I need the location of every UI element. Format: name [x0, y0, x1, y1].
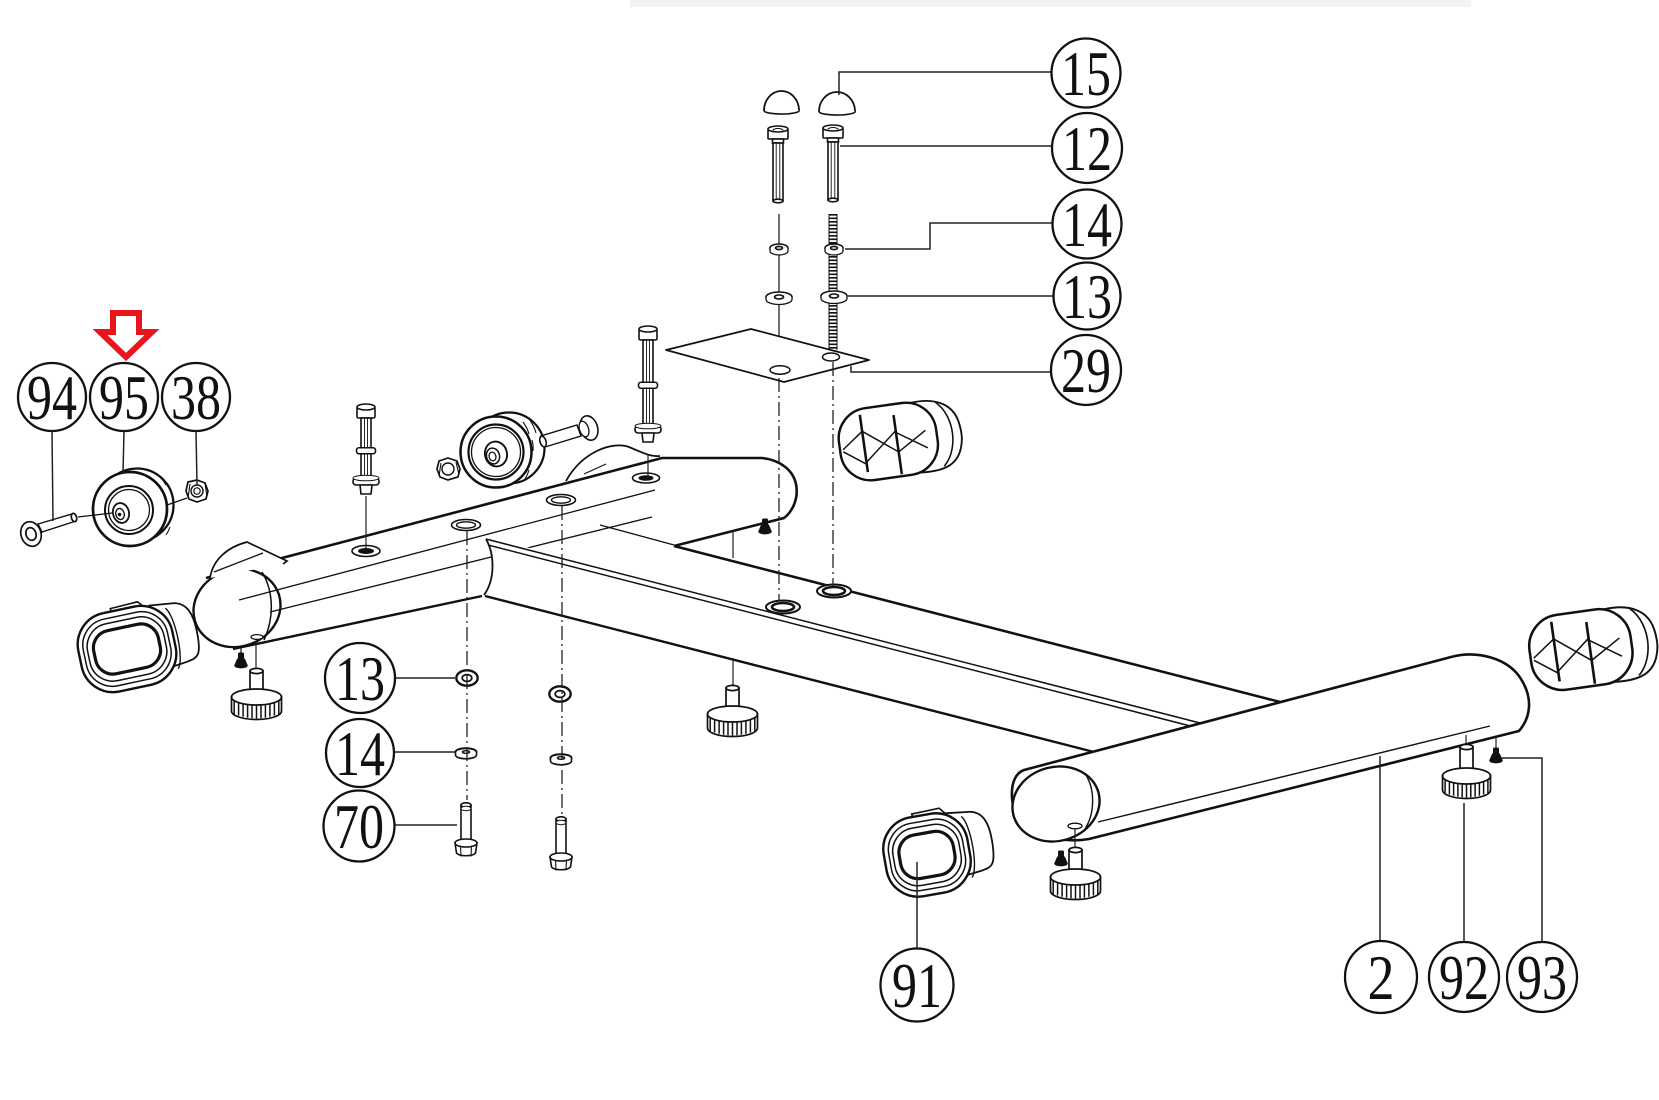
balloon 14 lower — [326, 718, 394, 789]
top gray bar artifact — [630, 0, 1471, 7]
balloon 2 — [1345, 941, 1417, 1013]
balloon 29 — [1051, 335, 1121, 406]
svg-text:91: 91 — [892, 950, 942, 1021]
bolt 12 left — [768, 126, 788, 203]
leader line to balloon 93 — [1501, 758, 1542, 941]
balloon 93 — [1507, 942, 1577, 1013]
dome nut cap 15 left — [764, 91, 799, 111]
oval hole in rail top face (left) — [766, 601, 800, 614]
balloon 14 — [1053, 189, 1122, 260]
svg-text:95: 95 — [99, 362, 149, 433]
leader line to balloon 70 — [394, 824, 457, 826]
leader line to balloon 29 — [851, 366, 1051, 372]
rail left rounded end — [484, 539, 493, 595]
washer 13 left (above plate) — [766, 292, 792, 305]
threaded rod of right bolt 12 — [829, 214, 838, 352]
red arrow pointing at balloon 95 — [100, 313, 152, 357]
leader line to balloon 12 — [840, 145, 1052, 147]
washer 14 second chain — [551, 754, 572, 765]
front stabilizer tube of T-frame (body fill) — [194, 458, 797, 649]
threaded stud bolt over tube hole 1 — [353, 404, 379, 494]
hex nut 38 — [186, 480, 208, 502]
hole 4 on tube top face with bolt tip — [633, 473, 660, 483]
axle line — [78, 498, 187, 517]
bolt 70 lower-left chain — [455, 803, 477, 857]
adjustable foot center — [708, 685, 758, 736]
svg-text:38: 38 — [171, 362, 221, 433]
dome nut cap 15 right — [819, 92, 855, 112]
end cap back-view far right (rear tube) — [1525, 602, 1659, 694]
balloon 95 — [90, 362, 158, 433]
axle bolt for center wheel — [539, 413, 601, 447]
washer 14 lower-left chain — [456, 748, 477, 759]
threaded stud bolt over tube hole 4 — [635, 326, 661, 442]
svg-text:94: 94 — [27, 362, 77, 433]
leader line to balloon 91 — [916, 862, 918, 948]
centerline dash-dot second chain — [561, 506, 563, 816]
leader line to balloon 13 — [848, 295, 1053, 297]
end cap 91 left (front tube) — [71, 591, 206, 698]
front tube outline (visible edges) — [206, 458, 797, 578]
hole 2 on tube top face — [452, 520, 481, 531]
mounting plate 29 — [666, 329, 869, 382]
leader line to balloon 94 — [52, 431, 53, 521]
balloon 94 — [18, 362, 86, 433]
adjustable foot front-left — [232, 668, 282, 719]
balloon 12 — [1052, 113, 1122, 184]
screw 93 under rear tube right — [1490, 748, 1502, 763]
screw under rear tube left — [1055, 851, 1067, 866]
washer 13 second chain — [549, 686, 571, 702]
centerline dash-dot through bolt 12 left — [778, 214, 780, 367]
leader line to balloon 95 — [123, 431, 124, 473]
center pulley wheel — [461, 413, 545, 488]
hole 1 on tube top face with bolt tip — [352, 546, 380, 557]
balloon 15 — [1052, 38, 1121, 109]
svg-text:12: 12 — [1062, 113, 1112, 184]
hex nut center — [437, 458, 460, 480]
bolt 94 — [18, 513, 78, 549]
svg-text:14: 14 — [335, 718, 385, 789]
front tube side face lower edge — [270, 517, 652, 612]
washer 14 left (above plate) — [770, 244, 788, 255]
front tube bottom edge — [233, 596, 482, 649]
small hex screw under front tube left — [235, 653, 247, 668]
gusset hump on tube near cylinder — [566, 445, 660, 481]
balloon 92 — [1429, 942, 1499, 1013]
end cap back-view upper (for T cylinder) — [835, 395, 966, 484]
svg-text:70: 70 — [334, 791, 384, 862]
rail near top edge double line — [486, 539, 1200, 728]
adjustable foot rear-left — [1051, 847, 1101, 899]
leader line to balloon 15 — [839, 72, 1051, 95]
svg-text:14: 14 — [1062, 189, 1112, 260]
washer 13 lower-left chain — [456, 670, 478, 686]
leader line to balloon 2 — [1379, 756, 1381, 940]
leader line to balloon 92 — [1463, 803, 1465, 941]
balloon 13 — [1054, 261, 1121, 332]
screw under T cylinder — [759, 519, 771, 534]
rail far top edge — [674, 546, 1284, 703]
svg-text:13: 13 — [335, 643, 385, 714]
front tube left oval end — [183, 558, 290, 658]
centerline dash-dot through bolt 12 right — [832, 362, 834, 586]
rear tube inner bottom line — [1098, 726, 1490, 822]
rim hatch — [523, 419, 536, 479]
balloon 13 lower — [325, 643, 395, 714]
svg-text:13: 13 — [1062, 261, 1112, 332]
balloon 91 — [881, 949, 954, 1022]
svg-text:92: 92 — [1439, 942, 1489, 1013]
centerline dash-dot through bolt 12 left — [778, 378, 780, 600]
leader line to balloon 38 — [196, 431, 197, 485]
washer 14 right (above plate) — [825, 244, 843, 255]
rear tube left oval end — [1004, 757, 1108, 851]
leader line to balloon 14 lower — [394, 751, 455, 753]
washer 13 right (above plate) — [821, 291, 847, 304]
balloon 70 — [324, 791, 395, 863]
end cap 91 (rear tube left, with leader) — [878, 800, 1000, 902]
bolt 70 second chain — [550, 817, 572, 871]
rear tube foot hole — [1068, 823, 1082, 829]
hole 3 on tube top face — [547, 495, 576, 506]
oval hole in rail top face (right) — [817, 585, 851, 598]
balloon 38 — [162, 362, 230, 433]
gusset flap at tube left end — [210, 542, 287, 578]
small hole under tube left end — [251, 635, 263, 640]
svg-text:2: 2 — [1368, 942, 1395, 1013]
pulley wheel 95 — [93, 469, 174, 547]
leader line to balloon 14 — [845, 223, 1052, 249]
cylinder/tube junction seam — [600, 525, 674, 545]
adjustable foot right-92 — [1443, 744, 1491, 798]
svg-text:29: 29 — [1061, 335, 1111, 406]
bolt 12 right — [823, 125, 843, 202]
front tube top face near edge — [239, 490, 655, 600]
rear stabilizer tube part 2 (body) — [1012, 655, 1529, 841]
centerline dash-dot left chain — [466, 531, 468, 800]
rail bottom edge — [485, 596, 1094, 752]
svg-text:93: 93 — [1517, 942, 1567, 1013]
svg-text:15: 15 — [1061, 38, 1111, 109]
rail member of T-frame (fill, in front of tube) — [484, 539, 1300, 775]
leader line to balloon 13 lower — [395, 677, 455, 679]
